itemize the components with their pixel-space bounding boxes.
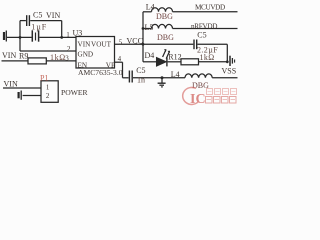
svg-text:C5: C5 bbox=[136, 66, 145, 75]
svg-text:R9: R9 bbox=[19, 51, 28, 60]
svg-text:VIN: VIN bbox=[46, 11, 60, 20]
svg-text:L4: L4 bbox=[146, 2, 155, 11]
svg-text:VOUT: VOUT bbox=[91, 40, 112, 48]
svg-text:1kΩ: 1kΩ bbox=[200, 53, 215, 62]
svg-text:3: 3 bbox=[65, 54, 69, 62]
svg-text:POWER: POWER bbox=[61, 88, 89, 97]
svg-text:DBG: DBG bbox=[156, 12, 173, 21]
svg-text:1n: 1n bbox=[137, 76, 145, 85]
svg-text:C5: C5 bbox=[33, 11, 42, 20]
svg-text:GND: GND bbox=[78, 50, 94, 58]
svg-text:2: 2 bbox=[67, 45, 71, 53]
svg-text:VCC: VCC bbox=[127, 37, 143, 46]
svg-text:1kΩ: 1kΩ bbox=[50, 53, 66, 62]
svg-text:R12: R12 bbox=[168, 52, 181, 61]
svg-text:VIN: VIN bbox=[4, 80, 18, 89]
svg-text:nRFVDD: nRFVDD bbox=[191, 22, 217, 30]
svg-text:U3: U3 bbox=[73, 29, 83, 38]
svg-text:L5: L5 bbox=[145, 23, 154, 32]
svg-text:VIN: VIN bbox=[78, 40, 92, 48]
svg-text:D4: D4 bbox=[145, 51, 155, 60]
svg-text:1: 1 bbox=[46, 84, 50, 92]
svg-text:L4: L4 bbox=[171, 70, 180, 79]
svg-text:2.2µF: 2.2µF bbox=[197, 45, 218, 54]
svg-text:5: 5 bbox=[119, 38, 123, 46]
svg-text:DBG: DBG bbox=[157, 33, 174, 42]
svg-text:1: 1 bbox=[66, 31, 70, 39]
svg-text:4: 4 bbox=[118, 55, 122, 63]
svg-text:2: 2 bbox=[46, 92, 50, 100]
svg-text:P1: P1 bbox=[40, 74, 48, 83]
svg-text:IC: IC bbox=[190, 92, 206, 106]
svg-text:C5: C5 bbox=[197, 31, 206, 40]
svg-text:MCUVDD: MCUVDD bbox=[195, 3, 225, 11]
svg-text:AMC7635-3.0: AMC7635-3.0 bbox=[78, 68, 123, 77]
svg-text:VSS: VSS bbox=[222, 66, 237, 75]
svg-text:1µF: 1µF bbox=[31, 22, 47, 31]
svg-text:VIN: VIN bbox=[2, 51, 16, 60]
